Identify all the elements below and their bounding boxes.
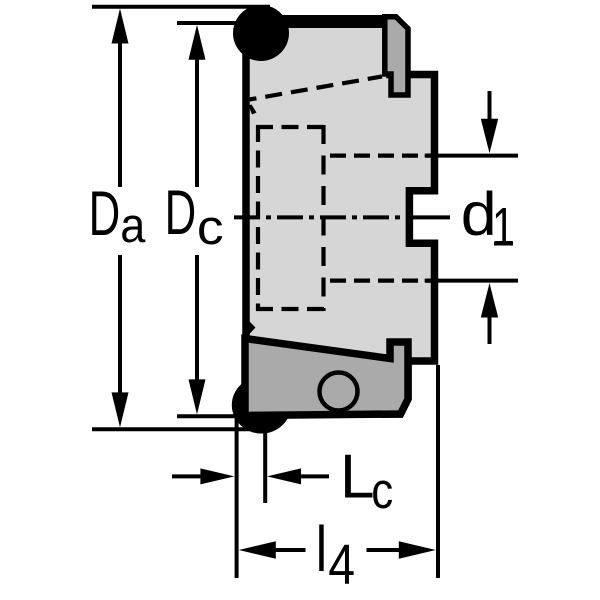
- svg-text:l: l: [316, 515, 327, 586]
- svg-text:1: 1: [492, 198, 515, 258]
- svg-text:D: D: [165, 178, 197, 248]
- svg-text:a: a: [120, 197, 146, 252]
- svg-text:D: D: [89, 179, 121, 249]
- svg-text:c: c: [197, 200, 224, 254]
- svg-text:L: L: [340, 443, 374, 512]
- svg-text:4: 4: [328, 533, 355, 597]
- svg-text:c: c: [371, 463, 393, 520]
